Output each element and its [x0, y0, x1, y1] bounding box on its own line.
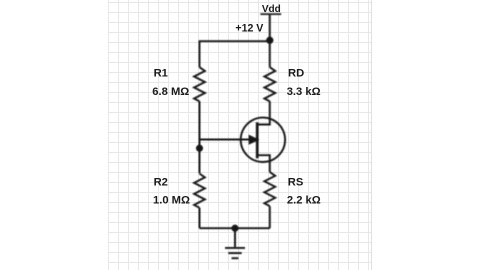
- svg-text:Vdd: Vdd: [262, 4, 281, 15]
- svg-text:3.3 kΩ: 3.3 kΩ: [287, 86, 321, 98]
- svg-text:R2: R2: [154, 176, 168, 188]
- svg-text:RD: RD: [288, 67, 304, 79]
- svg-text:R1: R1: [154, 67, 168, 79]
- svg-text:2.2 kΩ: 2.2 kΩ: [287, 194, 321, 206]
- svg-text:1.0 MΩ: 1.0 MΩ: [153, 194, 190, 206]
- svg-text:+12 V: +12 V: [235, 23, 263, 35]
- svg-text:6.8 MΩ: 6.8 MΩ: [152, 86, 189, 98]
- svg-text:RS: RS: [288, 176, 304, 188]
